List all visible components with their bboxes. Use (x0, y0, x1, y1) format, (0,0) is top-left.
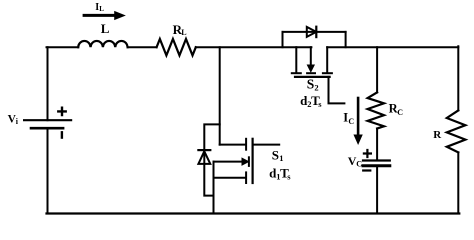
transistor S1 gate lead (253, 144, 280, 146)
transistor S2 gate bar (295, 76, 330, 78)
wire capacitor to bottom rail (376, 166, 378, 214)
inductor L (78, 41, 127, 47)
battery Vi minus tick (61, 132, 63, 137)
svg-text:L: L (99, 5, 104, 13)
svg-text:C: C (348, 117, 354, 126)
transistor S2 gate lead (329, 77, 345, 104)
transistor S2 source tick (292, 72, 301, 74)
transistor S1 body lead (214, 161, 243, 163)
capacitor VC plus sign (364, 150, 371, 157)
svg-text:2: 2 (314, 82, 318, 92)
svg-text:S: S (307, 76, 315, 91)
transistor S2 source lead (left vertical) (295, 47, 297, 72)
battery Vi bottom plate (31, 127, 63, 130)
wire right vertical top (to R) (457, 46, 459, 110)
svg-text:C: C (397, 108, 403, 117)
wire bottom rail (47, 212, 460, 214)
resistor RC (368, 92, 384, 128)
transistor S1 body tick (248, 157, 250, 166)
transistor S2 drain lead (right vertical) (326, 47, 328, 72)
wire left vertical top (Vi to top rail) (47, 47, 49, 120)
svg-text:1: 1 (279, 153, 283, 163)
arrow IL (83, 12, 125, 20)
capacitor VC bottom plate (363, 164, 390, 167)
svg-text:L: L (181, 28, 186, 37)
transistor S1 source tick (245, 172, 247, 183)
wire junction drop to S1 drain (219, 47, 221, 144)
diode d2 cathode bar (315, 27, 317, 37)
diode d1 triangle (198, 151, 210, 164)
wire jog to diode d1 branch (204, 124, 219, 195)
svg-text:R: R (433, 129, 442, 141)
wire S1 source to ground rail (213, 162, 215, 214)
resistor R (447, 110, 466, 152)
transistor S1 gate bar (252, 139, 254, 183)
wire top rail middle segment (196, 46, 312, 48)
svg-text:L: L (101, 21, 110, 36)
wire left vertical bottom (Vi minus to bottom rail) (47, 128, 49, 214)
transistor S1 drain lead (220, 144, 245, 146)
capacitor VC minus sign (363, 169, 370, 171)
transistor S2 drain tick (323, 72, 332, 74)
transistor S2 body lead (arrow shaft) (310, 47, 312, 65)
svg-text:C: C (356, 160, 362, 169)
wire top rail right segment (327, 46, 458, 48)
transistor S2 body arrowhead (307, 65, 314, 72)
transistor S1 source lead (214, 177, 246, 179)
transistor S2 body tick (307, 72, 315, 74)
diode d1 cathode bar (198, 149, 210, 151)
transistor S1 drain tick (245, 139, 247, 150)
diode d2 right vertical (345, 32, 347, 47)
wire RC branch top (376, 47, 378, 92)
diode d2 top wire (283, 31, 346, 33)
diode d2 left vertical (282, 32, 284, 47)
wire right vertical bottom (457, 152, 459, 213)
wire between L and RL (128, 46, 157, 48)
arrow IC (354, 97, 362, 144)
wire top rail left segment (47, 46, 79, 48)
battery Vi top plate (24, 119, 71, 121)
battery Vi plus sign (58, 108, 65, 115)
resistor RL (157, 39, 196, 55)
transistor S1 body arrowhead (242, 158, 249, 165)
capacitor VC top plate (363, 159, 390, 161)
svg-text:S: S (272, 147, 279, 162)
wire RC to capacitor (376, 129, 378, 160)
diode d2 triangle (307, 27, 317, 37)
